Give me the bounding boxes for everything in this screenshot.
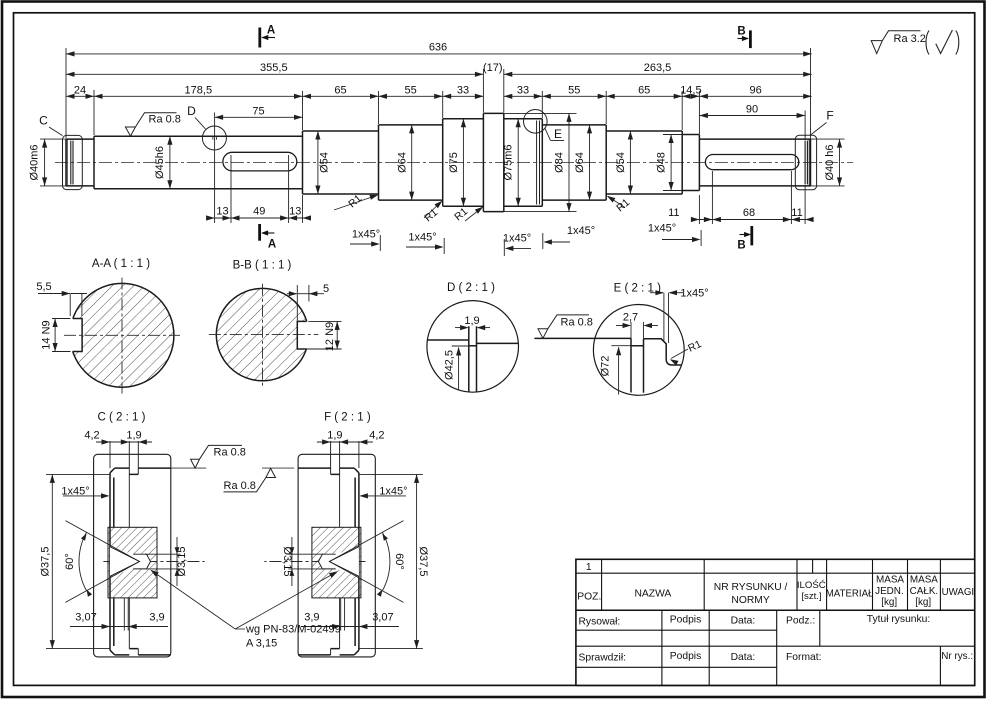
svg-text:B: B xyxy=(737,26,745,38)
dimension 11 68 11 xyxy=(693,219,811,221)
dimension 14 N9 (keyway width) xyxy=(52,318,71,320)
diameter dim Ø40 h6 xyxy=(839,139,841,186)
svg-text:Ø40 h6: Ø40 h6 xyxy=(824,144,836,180)
detail C 60° cone angle xyxy=(65,521,139,562)
detail C axis centerline xyxy=(103,561,204,563)
dimension 5 (keyway depth B-B) xyxy=(296,285,298,321)
detail F dimension Ø37,5 xyxy=(359,473,423,475)
svg-text:4,2: 4,2 xyxy=(369,430,384,442)
shaft section Ø45h6 xyxy=(94,136,303,189)
detail D dimension 1,9 xyxy=(455,327,468,329)
svg-text:68: 68 xyxy=(743,207,755,219)
shaft section Ø40h6 right stub xyxy=(699,139,810,186)
grinding relief groove near keyway (detail D region) xyxy=(213,136,217,140)
svg-text:ILOŚĆ: ILOŚĆ xyxy=(797,579,826,591)
label E with leader xyxy=(545,128,551,140)
svg-text:A-A ( 1 : 1 ): A-A ( 1 : 1 ) xyxy=(92,258,150,270)
detail F center hole section block (hatched) xyxy=(312,527,361,598)
svg-text:12 N9: 12 N9 xyxy=(324,322,336,351)
detail D boundary circle xyxy=(202,126,226,150)
fillet R1 at Ø64/Ø75 step xyxy=(424,202,442,219)
detail F dimension 4,2 xyxy=(317,441,373,443)
dimension 5,5 (keyway depth) xyxy=(69,294,71,316)
extension lines for dimensions xyxy=(66,48,811,224)
svg-text:1x45°: 1x45° xyxy=(680,288,708,300)
svg-text:Ø42,5: Ø42,5 xyxy=(443,350,455,380)
svg-text:F ( 2 : 1 ): F ( 2 : 1 ) xyxy=(324,412,371,424)
shaft section Ø40m6 left stub xyxy=(66,139,94,186)
detail C shaft end outline xyxy=(110,468,171,655)
shaft step faces and end faces xyxy=(66,113,811,211)
svg-text:Ra 0.8: Ra 0.8 xyxy=(214,446,246,458)
svg-text:5,5: 5,5 xyxy=(36,281,51,293)
svg-text:1x45°: 1x45° xyxy=(503,233,531,245)
svg-text:F: F xyxy=(826,109,833,123)
svg-text:636: 636 xyxy=(429,42,447,54)
right stub ring groove (detail F region) xyxy=(805,139,809,186)
shaft section Ø54 (right) xyxy=(606,131,682,194)
surface finish Ra 0.8 on Ø45h6 xyxy=(125,113,176,136)
svg-text:355,5: 355,5 xyxy=(260,62,288,74)
svg-text:Ø84: Ø84 xyxy=(553,152,565,173)
detail C dimensions 3,07 and 3,9 xyxy=(123,598,125,631)
surface finish Ra 0.8 (detail F surface, inverted) xyxy=(224,468,276,492)
section mark A (bottom) xyxy=(258,224,261,241)
detail E shaft surface, groove and shoulder xyxy=(534,338,681,392)
title block horizontal rules xyxy=(576,573,975,667)
detail F dimension Ø3,15 xyxy=(288,553,324,555)
section mark B (top) xyxy=(749,30,752,48)
detail F axis centerline xyxy=(264,561,365,563)
svg-text:Ø45h6: Ø45h6 xyxy=(154,146,166,179)
svg-text:1x45°: 1x45° xyxy=(352,229,380,241)
svg-text:3,07: 3,07 xyxy=(372,612,393,624)
svg-text:55: 55 xyxy=(568,85,580,97)
dimension 355,5 xyxy=(66,73,483,75)
fillet R1 at Ø64/Ø54 right step xyxy=(608,197,625,208)
svg-text:55: 55 xyxy=(404,85,416,97)
svg-text:60°: 60° xyxy=(393,553,405,570)
svg-text:5: 5 xyxy=(323,283,329,295)
surface finish Ra 0.8 at detail E xyxy=(538,315,589,338)
svg-text:NORMY: NORMY xyxy=(731,595,769,606)
section mark A (top) xyxy=(258,28,261,48)
svg-text:Data:: Data: xyxy=(731,616,756,627)
svg-text:33: 33 xyxy=(517,85,529,97)
shaft centerline (main axis) xyxy=(55,162,853,164)
svg-text:13: 13 xyxy=(289,206,301,218)
detail C boundary box on main view xyxy=(63,135,83,189)
section mark B (bottom) xyxy=(750,226,753,245)
detail C dimension 4,2 xyxy=(96,441,152,443)
common surface line between details C and F xyxy=(171,467,206,469)
svg-text:1,9: 1,9 xyxy=(126,430,141,442)
fillet R1 at Ø75/collar step xyxy=(465,208,482,222)
label C with leader xyxy=(49,127,63,136)
section A-A hatched circle xyxy=(70,283,174,387)
svg-text:1x45°: 1x45° xyxy=(567,225,595,237)
svg-text:14 N9: 14 N9 xyxy=(40,320,52,349)
label F with leader xyxy=(810,123,827,136)
svg-text:[szt.]: [szt.] xyxy=(801,591,821,602)
surface finish Ra 0.8 (detail C surface) xyxy=(191,445,242,468)
svg-text:POZ.: POZ. xyxy=(577,592,601,603)
svg-text:Ø64: Ø64 xyxy=(574,152,586,173)
svg-text:A: A xyxy=(268,239,276,251)
shaft collar Ø84 (17 wide) xyxy=(483,113,503,211)
detail E fillet R1 leader xyxy=(671,349,688,359)
svg-text:14,5: 14,5 xyxy=(680,85,701,97)
svg-text:A 3,15: A 3,15 xyxy=(246,638,277,650)
svg-text:Sprawdził:: Sprawdził: xyxy=(579,653,627,664)
detail E boundary circle xyxy=(593,305,684,396)
keyway slot on Ø40h6 xyxy=(705,155,798,170)
svg-text:3,9: 3,9 xyxy=(149,612,164,624)
shaft section Ø64 (left) xyxy=(379,125,443,200)
svg-text:65: 65 xyxy=(334,85,346,97)
label D with leader xyxy=(195,118,206,130)
svg-text:Ø48: Ø48 xyxy=(656,152,668,173)
svg-text:NR RYSUNKU /: NR RYSUNKU / xyxy=(714,582,788,593)
diameter dim Ø75m6 xyxy=(517,119,519,206)
relief groove at Ø75m6 shoulder (detail E region) xyxy=(537,121,540,205)
title block vertical rules (lower rows) xyxy=(662,610,941,685)
detail D dimension Ø42,5 xyxy=(452,345,471,347)
svg-text:Ra 3.2: Ra 3.2 xyxy=(894,33,926,45)
svg-text:Ø54: Ø54 xyxy=(615,152,627,173)
detail D shaft surface and groove xyxy=(427,326,518,392)
detail F shaft end outline xyxy=(298,468,359,655)
svg-text:Ø40m6: Ø40m6 xyxy=(29,144,41,180)
svg-text:1,9: 1,9 xyxy=(464,315,479,327)
svg-text:1: 1 xyxy=(586,562,592,573)
diameter dim Ø45h6 xyxy=(169,136,171,189)
section B-B hatched circle xyxy=(216,288,308,380)
svg-text:2,7: 2,7 xyxy=(623,312,638,324)
svg-text:Ra 0.8: Ra 0.8 xyxy=(561,316,593,328)
detail D boundary circle xyxy=(427,301,519,393)
detail C groove walls / extension verticals xyxy=(128,441,130,527)
svg-text:Ø37,5: Ø37,5 xyxy=(417,547,429,577)
svg-text:65: 65 xyxy=(638,85,650,97)
section A-A keyway notch 14N9 xyxy=(69,319,82,352)
diameter dim Ø84 (collar) xyxy=(568,113,570,211)
dimension 263,5 xyxy=(504,73,812,75)
center hole note wg PN-83/M-02499 A 3,15 with leaders xyxy=(152,571,236,630)
detail E dimension Ø72 xyxy=(611,345,638,347)
svg-text:(17): (17) xyxy=(483,62,503,74)
dimension 90 xyxy=(699,115,805,117)
detail F 60° cone angle xyxy=(329,521,403,562)
svg-text:60°: 60° xyxy=(64,553,76,570)
svg-text:33: 33 xyxy=(457,85,469,97)
shaft section Ø54 (left) xyxy=(303,131,379,194)
section A-A centerlines xyxy=(121,278,123,394)
svg-text:Podz.:: Podz.: xyxy=(786,616,815,627)
svg-text:Ø75: Ø75 xyxy=(448,152,460,173)
title block vertical rules (header rows) xyxy=(602,559,941,610)
shaft section Ø64 (right) xyxy=(542,125,606,200)
svg-text:Ø3,15: Ø3,15 xyxy=(176,547,188,577)
dimension 12 N9 (keyway width B-B) xyxy=(308,320,341,322)
detail C center hole A3,15 (white void) xyxy=(110,547,151,577)
fillet R1 at Ø54/Ø64 step xyxy=(334,195,377,210)
svg-text:Podpis: Podpis xyxy=(670,615,701,626)
detail E dimension 2,7 (groove width) xyxy=(630,322,632,338)
diameter dim Ø75 xyxy=(462,119,464,206)
svg-text:NAZWA: NAZWA xyxy=(634,589,671,600)
svg-text:CAŁK.: CAŁK. xyxy=(910,586,939,597)
svg-text:1,9: 1,9 xyxy=(327,430,342,442)
shaft section Ø75 xyxy=(443,119,484,206)
svg-text:Ra 0.8: Ra 0.8 xyxy=(224,480,256,492)
svg-text:Nr rys.:: Nr rys.: xyxy=(941,651,973,662)
svg-text:A: A xyxy=(267,25,275,37)
svg-text:96: 96 xyxy=(749,85,761,97)
detail C center hole section block (hatched) xyxy=(108,527,157,598)
svg-text:3,9: 3,9 xyxy=(304,612,319,624)
diameter dim Ø64 right xyxy=(589,125,591,200)
svg-text:UWAGI: UWAGI xyxy=(942,587,974,598)
dimension 75 (keyway position) xyxy=(215,116,303,118)
svg-text:11: 11 xyxy=(668,207,679,219)
svg-text:Format:: Format: xyxy=(786,652,821,663)
detail F dimensions 3,07 and 3,9 xyxy=(344,598,346,631)
svg-text:MATERIAŁ: MATERIAŁ xyxy=(826,589,874,600)
diameter dim Ø40m6 xyxy=(44,139,46,186)
svg-text:E: E xyxy=(554,127,562,141)
detail F boundary box xyxy=(298,454,375,657)
svg-text:75: 75 xyxy=(252,105,264,117)
svg-text:Ø3,15: Ø3,15 xyxy=(281,547,293,577)
svg-text:13: 13 xyxy=(216,206,228,218)
detail E chamfer extension lines and 1x45° dim xyxy=(663,293,665,341)
svg-text:D ( 2 : 1 ): D ( 2 : 1 ) xyxy=(447,282,495,294)
svg-text:1x45°: 1x45° xyxy=(408,232,436,244)
svg-text:Data:: Data: xyxy=(731,652,756,663)
detail C dimension Ø37,5 xyxy=(46,473,110,475)
extension lines (horizontal) for diameter dims xyxy=(40,113,845,211)
detail C dimension Ø3,15 xyxy=(145,553,181,555)
section B-B centerlines xyxy=(262,284,264,388)
detail F center hole A3,15 (white void) xyxy=(318,547,359,577)
title block outer frame xyxy=(576,559,975,685)
detail E boundary circle xyxy=(524,110,548,134)
detail F boundary box on main view xyxy=(795,135,816,190)
svg-text:49: 49 xyxy=(253,206,265,218)
svg-text:24: 24 xyxy=(74,85,86,97)
shaft section Ø75m6 bearing seat xyxy=(504,119,543,206)
diameter dim Ø54 right xyxy=(629,131,631,194)
svg-text:Ø75m6: Ø75m6 xyxy=(503,144,515,180)
svg-text:90: 90 xyxy=(746,104,758,116)
svg-text:Ø72: Ø72 xyxy=(600,356,612,377)
left stub ring groove (detail C region) xyxy=(67,139,73,186)
keyway slot on Ø45h6 xyxy=(223,152,297,171)
diameter dim Ø64 left xyxy=(411,125,413,200)
diameter dim Ø48 xyxy=(670,135,672,191)
svg-text:B: B xyxy=(737,240,745,252)
svg-text:D: D xyxy=(187,104,196,118)
svg-text:MASA: MASA xyxy=(876,575,904,586)
svg-text:Tytuł rysunku:: Tytuł rysunku: xyxy=(867,614,931,625)
svg-text:Ø37,5: Ø37,5 xyxy=(40,547,52,577)
svg-text:178,5: 178,5 xyxy=(185,85,213,97)
segment dimension row: 24 178,5 65 55 33 | 33 55 65 14,5 96 xyxy=(66,95,483,97)
dimension 13 49 13 xyxy=(208,217,308,219)
svg-text:Ø64: Ø64 xyxy=(396,152,408,173)
detail F groove walls / extension verticals xyxy=(339,441,341,527)
svg-text:Rysował:: Rysował: xyxy=(579,617,621,628)
svg-text:4,2: 4,2 xyxy=(84,430,99,442)
svg-text:[kg]: [kg] xyxy=(915,597,931,608)
svg-text:263,5: 263,5 xyxy=(644,62,672,74)
svg-text:wg PN-83/M-02499: wg PN-83/M-02499 xyxy=(245,624,341,636)
svg-text:3,07: 3,07 xyxy=(75,612,96,624)
detail C boundary box xyxy=(94,454,171,657)
svg-text:Podpis: Podpis xyxy=(670,651,701,662)
svg-text:JEDN.: JEDN. xyxy=(875,586,904,597)
shaft section Ø48 xyxy=(682,135,699,191)
general surface note Ra 3.2 with (check) xyxy=(871,31,920,54)
svg-text:C: C xyxy=(39,114,48,128)
svg-text:B-B ( 1 : 1 ): B-B ( 1 : 1 ) xyxy=(233,260,292,272)
svg-text:1x45°: 1x45° xyxy=(648,223,676,235)
svg-text:C ( 2 : 1 ): C ( 2 : 1 ) xyxy=(98,412,146,424)
svg-text:Ø54: Ø54 xyxy=(319,152,331,173)
svg-text:Ra 0.8: Ra 0.8 xyxy=(149,113,181,125)
svg-text:[kg]: [kg] xyxy=(881,597,897,608)
svg-text:11: 11 xyxy=(791,207,802,219)
diameter dim Ø54 left xyxy=(317,131,319,194)
section B-B keyway notch 12N9 xyxy=(297,321,311,349)
dimension 636 xyxy=(66,53,812,55)
svg-text:MASA: MASA xyxy=(910,575,938,586)
